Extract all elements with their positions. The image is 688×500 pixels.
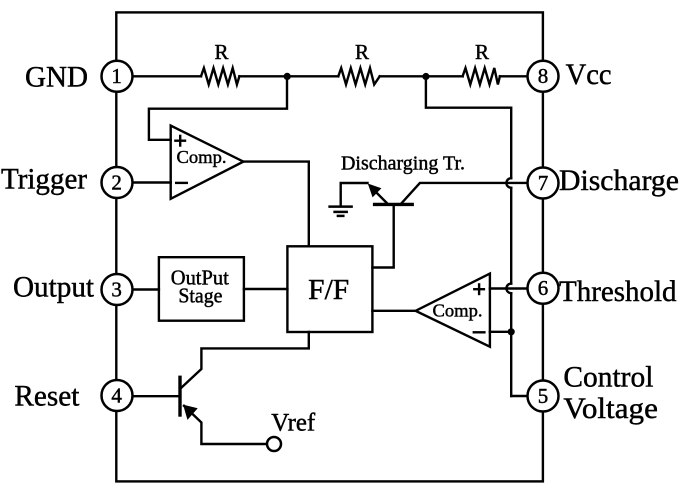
IC package outline frame [116, 12, 543, 481]
svg-text:2: 2 [111, 170, 122, 194]
wire vertical bus lower [510, 293, 512, 396]
svg-text:7: 7 [538, 171, 549, 195]
svg-text:1: 1 [111, 64, 122, 88]
pin 1 circle [102, 61, 133, 92]
svg-text:Threshold: Threshold [559, 275, 677, 308]
node C junction dot (comp2 minus / control voltage bus) [508, 328, 515, 335]
wire node A down-left to comparator1 plus input [149, 77, 287, 140]
svg-text:Discharge: Discharge [559, 164, 679, 197]
svg-text:Output: Output [13, 271, 95, 304]
svg-text:Control: Control [563, 361, 653, 394]
wire comparator1 output to F/F top [243, 162, 308, 247]
wire node B down-right to vertical bus [426, 77, 511, 178]
transistor Q2 emitter diagonal and wire to Vref [184, 406, 266, 444]
resistor R2 [338, 68, 379, 85]
pin 8 circle [528, 61, 559, 92]
wire node B to R3 [426, 75, 463, 77]
svg-text:R: R [214, 40, 228, 64]
svg-text:R: R [355, 40, 369, 64]
terminal Vref circle [267, 437, 281, 451]
wire output stage to F/F [244, 288, 288, 290]
pin 7 circle [528, 168, 559, 199]
wire bus to pin5 [511, 395, 527, 397]
wire R1 to node A [239, 75, 287, 77]
wire pin1 to R1 [133, 75, 202, 77]
wire comparator2 output to F/F [372, 310, 415, 312]
pin 4 circle [102, 380, 133, 411]
wire F/F to discharging transistor base [372, 204, 393, 267]
arrowhead Q1 emitter (NPN, pointing to ground wire) [369, 184, 381, 196]
svg-text:5: 5 [538, 384, 549, 408]
svg-text:Stage: Stage [178, 283, 222, 307]
wire emitter to ground [341, 183, 368, 205]
svg-text:GND: GND [25, 61, 88, 94]
wire hop over threshold line [506, 284, 511, 294]
svg-text:F/F: F/F [308, 275, 349, 306]
svg-text:Reset: Reset [14, 380, 80, 413]
comparator2 minus symbol [473, 331, 486, 333]
wire pin2 to comparator1 minus input [133, 181, 171, 183]
wire hop over discharge line [506, 178, 511, 188]
wire pin3 to output stage [133, 288, 159, 290]
svg-text:R: R [475, 40, 489, 64]
resistor R1 [201, 68, 239, 85]
svg-text:Vref: Vref [271, 409, 316, 436]
node A junction dot [284, 73, 291, 80]
resistor R3 [463, 68, 500, 85]
wire vertical bus middle [510, 188, 512, 284]
block OutPut Stage box [159, 257, 244, 321]
comparator1 minus symbol [175, 182, 188, 184]
svg-text:Trigger: Trigger [1, 163, 87, 196]
transistor Q1 base bar [375, 203, 413, 206]
svg-text:Comp.: Comp. [177, 147, 227, 167]
comparator1 plus symbol [174, 139, 186, 141]
pin 5 circle [528, 381, 559, 412]
transistor Q1 emitter diagonal [373, 189, 387, 203]
transistor Q1 discharging: collector diagonal and wire to pin7 [402, 183, 528, 203]
pin 6 circle [528, 273, 559, 304]
op-amp comparator 1 [171, 126, 244, 199]
wire comparator2 minus to bus junction [490, 331, 511, 333]
svg-text:8: 8 [538, 64, 549, 88]
transistor Q2 base bar [178, 377, 181, 415]
ground symbol [330, 205, 352, 208]
svg-text:Comp.: Comp. [433, 301, 483, 321]
svg-text:3: 3 [111, 277, 122, 301]
wire node A to R2 [287, 75, 338, 77]
op-amp comparator 2 [416, 274, 490, 347]
svg-text:Voltage: Voltage [563, 392, 658, 425]
comparator2 plus symbol [473, 288, 485, 290]
wire F/F bottom to transistor Q2 collector [182, 332, 309, 388]
node B junction dot [422, 73, 429, 80]
pin 3 circle [102, 274, 133, 305]
svg-text:Vcc: Vcc [566, 58, 612, 91]
svg-text:4: 4 [111, 383, 122, 407]
pin 2 circle [102, 167, 133, 198]
wire R3 to pin8 [500, 75, 528, 77]
wire pin4 to transistor Q2 base [133, 395, 180, 397]
arrowhead Q2 emitter (PNP, pointing into base bar) [184, 405, 197, 419]
svg-text:6: 6 [538, 276, 549, 300]
wire comparator2 plus to pin6 [490, 287, 528, 289]
block F/F box [287, 246, 372, 332]
svg-text:Discharging Tr.: Discharging Tr. [341, 152, 465, 174]
wire R2 to node B [380, 75, 426, 77]
